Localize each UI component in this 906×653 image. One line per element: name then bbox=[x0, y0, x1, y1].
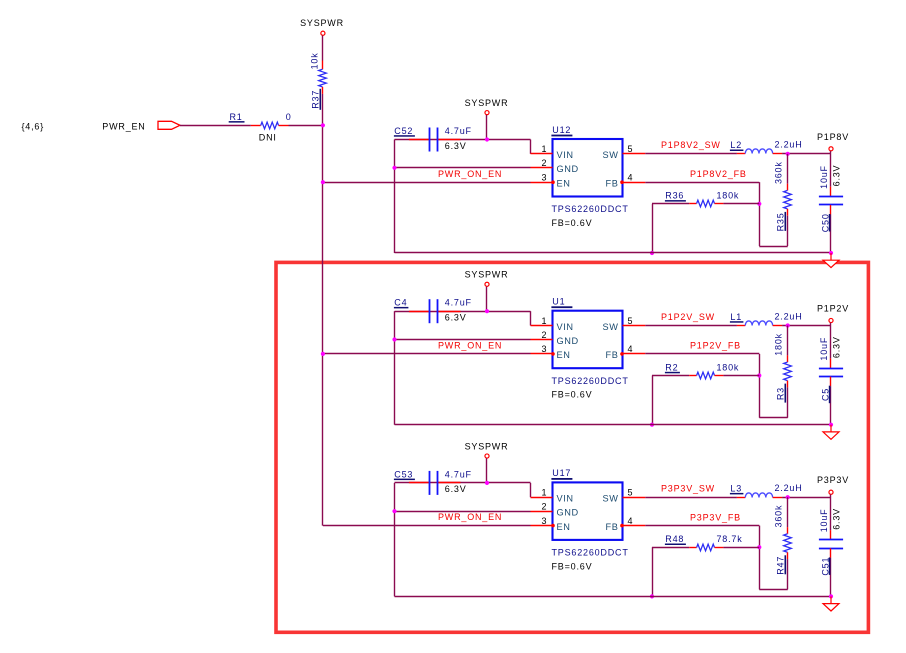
svg-text:5: 5 bbox=[628, 488, 634, 498]
junction SYSPWR/top rail of U1 bbox=[485, 309, 489, 313]
pin stub 5 SW of U17 bbox=[623, 497, 646, 499]
wire FB net of U17 bbox=[645, 525, 759, 527]
svg-text:4.7uF: 4.7uF bbox=[445, 469, 472, 479]
wire SW net of U17 bbox=[645, 497, 737, 499]
svg-text:6.3V: 6.3V bbox=[831, 336, 841, 358]
pin stub 5 SW of U1 bbox=[623, 325, 646, 327]
resistor R37 10k pull-up bbox=[322, 61, 324, 70]
svg-text:R1: R1 bbox=[230, 112, 243, 122]
svg-text:R2: R2 bbox=[665, 362, 678, 372]
svg-text:P1P2V_SW: P1P2V_SW bbox=[661, 312, 715, 322]
wire left branch vertical of U17 bbox=[394, 483, 396, 597]
pin stub 2 GND of U1 bbox=[531, 339, 553, 341]
wire VIN top rail of block U1 bbox=[395, 311, 531, 313]
wire SYSPWR stub of block U17 bbox=[486, 458, 488, 483]
resistor R35 lower divider bbox=[787, 154, 789, 184]
node PWR_ON_EN trunk vertical bbox=[322, 125, 324, 525]
svg-text:R3: R3 bbox=[776, 387, 786, 400]
ground symbol of U17 bbox=[830, 596, 832, 603]
svg-text:P3P3V: P3P3V bbox=[817, 475, 849, 485]
junction GND wire/left branch of U12 bbox=[392, 166, 396, 170]
capacitor C53 4.7uF input bbox=[409, 482, 430, 484]
svg-text:4: 4 bbox=[628, 173, 634, 183]
svg-text:180k: 180k bbox=[717, 362, 740, 372]
svg-text:TPS62260DDCT: TPS62260DDCT bbox=[552, 548, 629, 558]
svg-text:360k: 360k bbox=[774, 161, 784, 184]
inductor L3 2.2uH bbox=[737, 497, 745, 499]
svg-text:5: 5 bbox=[628, 144, 634, 154]
pin stub 3 EN of U12 bbox=[531, 182, 553, 184]
wire corner into pin1 of U12 bbox=[530, 140, 532, 154]
svg-text:PWR_EN: PWR_EN bbox=[102, 122, 145, 132]
svg-text:6.3V: 6.3V bbox=[445, 141, 467, 151]
pin stub 4 FB of U1 bbox=[623, 353, 646, 355]
wire inductor to output port of U1 bbox=[782, 325, 831, 327]
wire GND pin2 of U1 bbox=[395, 339, 531, 341]
wire left branch vertical of U12 bbox=[394, 140, 396, 254]
svg-text:VIN: VIN bbox=[557, 322, 574, 332]
svg-text:1: 1 bbox=[541, 316, 547, 326]
junction FB/R48 of U17 bbox=[757, 545, 761, 549]
svg-text:10uF: 10uF bbox=[819, 165, 829, 189]
svg-text:0: 0 bbox=[286, 112, 292, 122]
junction output cap/ground rail of U1 bbox=[829, 423, 833, 427]
wire SYSPWR stub of block U12 bbox=[486, 115, 488, 140]
svg-text:R37: R37 bbox=[311, 90, 321, 109]
capacitor C51 10uF output bbox=[830, 497, 832, 530]
svg-text:P3P3V_FB: P3P3V_FB bbox=[690, 512, 741, 522]
svg-text:2: 2 bbox=[541, 158, 547, 168]
pin junction dots EN FB of U17 bbox=[551, 524, 555, 528]
wire R48 to ground rail bbox=[652, 547, 654, 596]
svg-text:3: 3 bbox=[541, 344, 547, 354]
wire VIN top rail of block U17 bbox=[395, 482, 531, 484]
svg-text:1: 1 bbox=[541, 488, 547, 498]
pin stub 1 VIN of U12 bbox=[531, 153, 553, 155]
junction output/R47 branch bbox=[786, 495, 790, 499]
pin stub 3 EN of U1 bbox=[531, 353, 553, 355]
svg-text:180k: 180k bbox=[717, 191, 740, 201]
svg-text:PWR_ON_EN: PWR_ON_EN bbox=[438, 169, 502, 179]
junction output/R3 branch bbox=[786, 323, 790, 327]
svg-text:L3: L3 bbox=[730, 484, 742, 494]
junction R36/ground rail bbox=[650, 251, 654, 255]
svg-text:TPS62260DDCT: TPS62260DDCT bbox=[552, 204, 629, 214]
svg-text:SW: SW bbox=[603, 494, 619, 504]
svg-text:P3P3V_SW: P3P3V_SW bbox=[661, 484, 715, 494]
capacitor C4 4.7uF input bbox=[409, 311, 430, 313]
svg-text:PWR_ON_EN: PWR_ON_EN bbox=[438, 341, 502, 351]
svg-text:2: 2 bbox=[541, 330, 547, 340]
wire FB net of U1 bbox=[645, 353, 759, 355]
svg-text:SYSPWR: SYSPWR bbox=[465, 441, 509, 451]
svg-text:FB: FB bbox=[606, 179, 619, 189]
wire SW net of U12 bbox=[645, 153, 737, 155]
wire R1 to trunk bbox=[289, 125, 323, 127]
ground symbol of U1 bbox=[830, 425, 832, 432]
svg-text:FB=0.6V: FB=0.6V bbox=[552, 218, 593, 228]
wire EN pin3 of U1 from trunk bbox=[323, 353, 531, 355]
svg-text:FB=0.6V: FB=0.6V bbox=[552, 561, 593, 571]
wire port stub P3P3V bbox=[830, 495, 832, 498]
svg-text:L1: L1 bbox=[730, 312, 742, 322]
capacitor C52 4.7uF input bbox=[409, 139, 430, 141]
wire left branch vertical of U1 bbox=[394, 311, 396, 425]
svg-text:3: 3 bbox=[541, 516, 547, 526]
junction trunk/EN of U1 bbox=[321, 352, 325, 356]
svg-text:360k: 360k bbox=[774, 505, 784, 528]
wire ground return rail of U1 bbox=[395, 424, 832, 426]
ground symbol of U12 bbox=[830, 253, 832, 260]
junction FB/R2 of U1 bbox=[757, 373, 761, 377]
inductor L1 2.2uH bbox=[737, 325, 745, 327]
svg-text:2.2uH: 2.2uH bbox=[775, 483, 803, 493]
svg-text:FB: FB bbox=[606, 522, 619, 532]
wire GND pin2 of U17 bbox=[395, 511, 531, 513]
svg-text:4.7uF: 4.7uF bbox=[445, 126, 472, 136]
svg-text:FB: FB bbox=[606, 350, 619, 360]
svg-text:U17: U17 bbox=[552, 468, 571, 478]
wire R37 to PWR_EN junction bbox=[322, 94, 324, 125]
pin junction dots EN FB of U12 bbox=[551, 180, 555, 184]
wire port stub P1P8V bbox=[830, 151, 832, 154]
svg-text:5: 5 bbox=[628, 316, 634, 326]
wire inductor to output port of U17 bbox=[782, 497, 831, 499]
svg-text:6.3V: 6.3V bbox=[831, 165, 841, 187]
svg-text:SYSPWR: SYSPWR bbox=[300, 18, 344, 28]
svg-text:VIN: VIN bbox=[557, 494, 574, 504]
svg-text:C53: C53 bbox=[394, 469, 413, 479]
resistor R48 feedback bbox=[652, 547, 689, 549]
inductor L2 2.2uH bbox=[737, 153, 745, 155]
junction GND wire/left branch of U1 bbox=[392, 337, 396, 341]
wire PWR_EN to R1 bbox=[180, 125, 251, 127]
wire ground return rail of U12 bbox=[395, 252, 832, 254]
svg-text:4: 4 bbox=[628, 516, 634, 526]
svg-text:3: 3 bbox=[541, 173, 547, 183]
pin stub 5 SW of U12 bbox=[623, 153, 646, 155]
svg-text:P1P8V2_FB: P1P8V2_FB bbox=[690, 169, 747, 179]
op-amp U-block regulator U17 TPS62260DDCT bbox=[553, 482, 623, 540]
junction FB/R36 of U12 bbox=[757, 202, 761, 206]
svg-text:10uF: 10uF bbox=[819, 337, 829, 361]
svg-text:180k: 180k bbox=[774, 333, 784, 356]
svg-text:U12: U12 bbox=[552, 125, 571, 135]
junction output cap/ground rail of U12 bbox=[829, 251, 833, 255]
pin stub 1 VIN of U17 bbox=[531, 497, 553, 499]
svg-text:GND: GND bbox=[557, 164, 579, 174]
svg-text:R48: R48 bbox=[665, 534, 684, 544]
pin stub 4 FB of U17 bbox=[623, 525, 646, 527]
svg-text:4: 4 bbox=[628, 344, 634, 354]
wire ground return rail of U17 bbox=[395, 596, 832, 598]
wire SYSPWR stub of block U1 bbox=[486, 287, 488, 312]
svg-text:C4: C4 bbox=[394, 298, 407, 308]
svg-text:78.7k: 78.7k bbox=[717, 534, 743, 544]
svg-text:6.3V: 6.3V bbox=[831, 508, 841, 530]
svg-text:EN: EN bbox=[557, 522, 571, 532]
svg-text:C52: C52 bbox=[394, 126, 413, 136]
svg-text:6.3V: 6.3V bbox=[445, 313, 467, 323]
wire R2 to ground rail bbox=[652, 376, 654, 425]
red selection rectangle around lower two regulator blocks bbox=[276, 262, 868, 632]
wire corner into pin1 of U1 bbox=[530, 311, 532, 325]
junction output cap/ground rail of U17 bbox=[829, 594, 833, 598]
svg-text:2: 2 bbox=[541, 502, 547, 512]
junction trunk/EN of U12 bbox=[321, 180, 325, 184]
svg-text:GND: GND bbox=[557, 508, 579, 518]
wire EN pin3 of U12 from trunk bbox=[323, 182, 531, 184]
svg-text:P1P2V: P1P2V bbox=[817, 304, 849, 314]
junction R48/ground rail bbox=[650, 594, 654, 598]
resistor R3 lower divider bbox=[787, 326, 789, 356]
svg-text:2.2uH: 2.2uH bbox=[775, 140, 803, 150]
capacitor C50 10uF output bbox=[830, 154, 832, 187]
wire SW net of U1 bbox=[645, 325, 737, 327]
capacitor C5 10uF output bbox=[830, 326, 832, 359]
svg-text:R47: R47 bbox=[776, 556, 786, 575]
resistor R2 feedback bbox=[652, 375, 689, 377]
wire FB net of U12 bbox=[645, 182, 759, 184]
resistor R1 bbox=[251, 125, 261, 127]
svg-text:VIN: VIN bbox=[557, 150, 574, 160]
resistor R47 lower divider bbox=[787, 497, 789, 527]
op-amp U-block regulator U1 TPS62260DDCT bbox=[553, 311, 623, 369]
svg-text:P1P8V: P1P8V bbox=[817, 132, 849, 142]
svg-text:10k: 10k bbox=[310, 52, 320, 69]
svg-text:2.2uH: 2.2uH bbox=[775, 311, 803, 321]
svg-text:DNI: DNI bbox=[259, 132, 277, 142]
junction GND wire/left branch of U17 bbox=[392, 509, 396, 513]
pin stub 3 EN of U17 bbox=[531, 525, 553, 527]
svg-text:GND: GND bbox=[557, 336, 579, 346]
pin stub 1 VIN of U1 bbox=[531, 325, 553, 327]
wire EN pin3 of U17 from trunk bbox=[323, 525, 531, 527]
svg-text:{4,6}: {4,6} bbox=[22, 122, 45, 132]
svg-text:EN: EN bbox=[557, 350, 571, 360]
wire SYSPWR to R37 bbox=[322, 36, 324, 61]
wire VIN top rail of block U12 bbox=[395, 139, 531, 141]
svg-text:1: 1 bbox=[541, 144, 547, 154]
junction output/R35 branch bbox=[786, 152, 790, 156]
svg-text:R36: R36 bbox=[665, 191, 684, 201]
svg-text:PWR_ON_EN: PWR_ON_EN bbox=[438, 512, 502, 522]
wire GND pin2 of U12 bbox=[395, 167, 531, 169]
svg-text:10uF: 10uF bbox=[819, 509, 829, 533]
junction SYSPWR/top rail of U12 bbox=[485, 137, 489, 141]
op-amp U-block regulator U12 TPS62260DDCT bbox=[553, 139, 623, 197]
svg-text:4.7uF: 4.7uF bbox=[445, 298, 472, 308]
pin stub 4 FB of U12 bbox=[623, 182, 646, 184]
svg-text:6.3V: 6.3V bbox=[445, 484, 467, 494]
svg-text:P1P8V2_SW: P1P8V2_SW bbox=[661, 140, 721, 150]
svg-text:SW: SW bbox=[603, 322, 619, 332]
pin stub 2 GND of U12 bbox=[531, 167, 553, 169]
pin stub 2 GND of U17 bbox=[531, 511, 553, 513]
off-page connector PWR_EN bbox=[158, 121, 180, 129]
svg-text:SYSPWR: SYSPWR bbox=[465, 98, 509, 108]
resistor R36 feedback bbox=[652, 203, 689, 205]
svg-text:TPS62260DDCT: TPS62260DDCT bbox=[552, 376, 629, 386]
wire port stub P1P2V bbox=[830, 323, 832, 326]
wire corner into pin1 of U17 bbox=[530, 483, 532, 497]
wire inductor to output port of U12 bbox=[782, 153, 831, 155]
svg-text:R35: R35 bbox=[776, 212, 786, 231]
svg-text:SYSPWR: SYSPWR bbox=[465, 270, 509, 280]
junction SYSPWR/top rail of U17 bbox=[485, 481, 489, 485]
junction R1/R37/trunk bbox=[321, 123, 325, 127]
pin junction dots EN FB of U1 bbox=[551, 352, 555, 356]
svg-text:P1P2V_FB: P1P2V_FB bbox=[690, 341, 741, 351]
svg-text:L2: L2 bbox=[730, 140, 742, 150]
svg-text:EN: EN bbox=[557, 179, 571, 189]
svg-text:U1: U1 bbox=[552, 297, 565, 307]
svg-text:FB=0.6V: FB=0.6V bbox=[552, 390, 593, 400]
svg-text:SW: SW bbox=[603, 150, 619, 160]
wire R36 to ground rail bbox=[652, 204, 654, 253]
junction R2/ground rail bbox=[650, 423, 654, 427]
